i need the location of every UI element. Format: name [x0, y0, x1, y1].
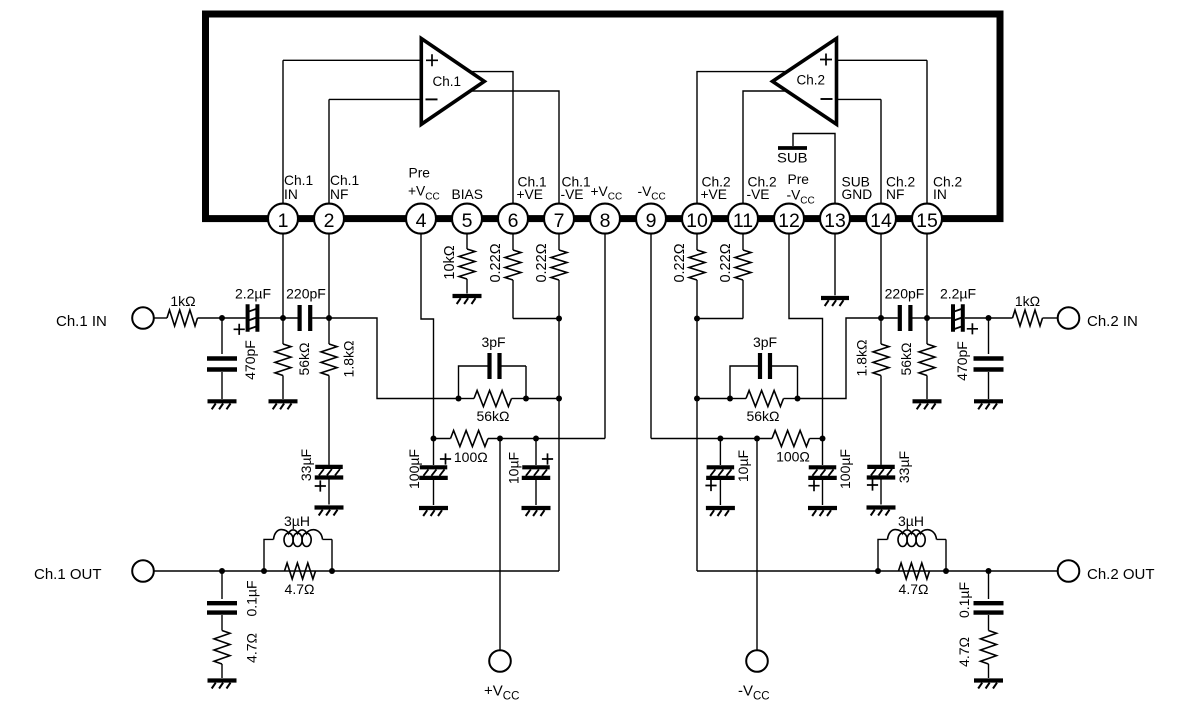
polarity + of 33uF: [315, 480, 326, 491]
pin 6 label Ch.1 +VE: [517, 175, 547, 202]
svg-text:0.22Ω: 0.22Ω: [672, 243, 688, 282]
wire C 2.2uF to node (Ch.2): [929, 317, 1013, 319]
svg-text:Pre: Pre: [409, 166, 431, 181]
wire pin7 column down to output line: [558, 319, 560, 572]
node 10uF (left): [533, 436, 539, 442]
svg-text:+VE: +VE: [701, 187, 727, 202]
node pin15 column / input (Ch.2): [924, 315, 930, 321]
substrate SUB symbol: [777, 148, 808, 166]
wire C 470pF to ground (Ch.2): [988, 372, 990, 399]
wire 3pF branch (Ch.1): [459, 366, 527, 399]
wire substrate to pin13: [793, 134, 835, 205]
svg-text:13: 13: [824, 210, 846, 232]
svg-text:NF: NF: [886, 187, 904, 202]
svg-text:Ch.1: Ch.1: [330, 173, 359, 188]
terminal +VCC: [489, 650, 511, 672]
pin 14: [866, 204, 896, 234]
svg-text:220pF: 220pF: [286, 286, 326, 302]
ground (Ch.1 470pF): [208, 399, 237, 403]
capacitor 10uF electrolytic (-VCC): [719, 439, 721, 466]
svg-text:2: 2: [324, 210, 335, 232]
node feedback left (Ch.2): [727, 396, 733, 402]
wire Ch.1 output line: [154, 570, 560, 572]
svg-text:0.1µF: 0.1µF: [243, 580, 259, 616]
resistor 1k ohm (Ch.1 input): [167, 310, 198, 326]
terminal Ch.2 OUT: [1058, 560, 1080, 582]
resistor 0.22 ohm (pin10 +VE): [696, 234, 698, 250]
wire feedback to pin7 column: [526, 398, 559, 400]
pin 1 label Ch.1 IN: [284, 173, 313, 202]
ground (Ch.2 470pF): [974, 399, 1003, 403]
pin 7 label Ch.1 -VE: [561, 175, 591, 202]
wire Ch.2 output to pin11 (-VE): [743, 91, 797, 205]
svg-text:Ch.1 IN: Ch.1 IN: [56, 313, 107, 330]
capacitor 2.2uF electrolytic (Ch.1 input): [248, 304, 258, 332]
node pin14 column / NF (Ch.2): [878, 315, 884, 321]
capacitor 0.1uF Zobel (Ch.1): [207, 603, 237, 612]
node 10uF (right): [717, 436, 723, 442]
wire node to C 0.1uF (Ch.2): [988, 571, 990, 599]
wire feedback to pin10 column: [697, 398, 730, 400]
polarity + of 2.2uF (Ch.2): [967, 323, 978, 334]
node pin7 column / feedback: [556, 396, 562, 402]
wire Ch.2 output to pin10 (+VE): [697, 72, 795, 205]
polarity + of 100uF (left): [440, 453, 451, 464]
svg-text:33µF: 33µF: [896, 451, 912, 483]
wire C 33uF to ground (Ch.2): [880, 480, 882, 505]
node Zobel (Ch.2): [986, 568, 992, 574]
resistor 56k ohm feedback (Ch.2): [784, 398, 798, 400]
pin 10 label Ch.2 +VE: [701, 175, 731, 202]
resistor 0.22 ohm (pin7 -VE): [558, 234, 560, 250]
resistor 56k ohm (Ch.1 input bias): [282, 318, 284, 344]
node pin2 column / NF: [326, 315, 332, 321]
svg-text:BIAS: BIAS: [452, 187, 483, 202]
node L/R filter right (Ch.1): [329, 568, 335, 574]
ground (Ch.1 33uF): [315, 505, 344, 509]
svg-text:1.8kΩ: 1.8kΩ: [853, 340, 869, 377]
wire pin15 to input node: [926, 234, 928, 318]
svg-text:IN: IN: [284, 187, 298, 202]
wire +VCC supply line: [499, 439, 501, 651]
resistor 4.7 ohm Zobel (Ch.2): [981, 631, 997, 665]
pin 2: [314, 204, 344, 234]
wire pin12 Pre -VCC jog: [789, 234, 823, 439]
svg-text:1kΩ: 1kΩ: [1015, 293, 1040, 309]
wire pin9 -VCC down to rail: [651, 234, 772, 439]
svg-text:11: 11: [733, 210, 753, 232]
wire C 0.1uF to R 4.7 (Ch.2): [988, 615, 990, 631]
node Zobel (Ch.1): [219, 568, 225, 574]
svg-text:3µH: 3µH: [284, 513, 310, 529]
op-amp Ch.2: [773, 39, 837, 125]
resistor 1.8k ohm (Ch.1 NF): [328, 318, 330, 344]
wire pin13 to ground: [834, 234, 836, 296]
ground (BIAS 10k): [453, 294, 482, 298]
node Ch.2 input / 470pF junction: [986, 315, 992, 321]
wire Ch.2 output line: [697, 570, 1058, 572]
svg-text:14: 14: [870, 210, 892, 232]
pin 1: [268, 204, 298, 234]
wire node to C 0.1uF (Ch.1): [221, 571, 223, 599]
wire Ch.1 IN terminal to R 1k: [154, 317, 168, 319]
svg-text:-VE: -VE: [561, 187, 584, 202]
capacitor 100uF electrolytic (-VCC): [822, 439, 824, 466]
pin 8: [590, 204, 620, 234]
wire R 1k to Ch.2 IN terminal: [1043, 317, 1059, 319]
svg-text:0.22Ω: 0.22Ω: [718, 243, 734, 282]
wire C 33uF to ground: [328, 480, 330, 505]
op-amp Ch.1: [421, 39, 484, 125]
svg-text:Ch.2 OUT: Ch.2 OUT: [1087, 566, 1155, 583]
inductor 3uH (Ch.1): [264, 530, 332, 571]
svg-text:10µF: 10µF: [735, 450, 751, 482]
wire C 0.1uF to R 4.7 (Ch.1): [221, 615, 223, 631]
node L/R filter left (Ch.2): [875, 568, 881, 574]
wire R 4.7 to ground (Ch.2): [988, 664, 990, 678]
pin 4 label Pre +VCC: [408, 166, 440, 203]
IC package outline (hybrid module body): [206, 14, 1001, 219]
resistor 4.7 ohm damping (Ch.2): [899, 563, 930, 579]
svg-text:470pF: 470pF: [242, 340, 258, 380]
svg-text:4.7Ω: 4.7Ω: [285, 581, 315, 597]
pin 4: [406, 204, 436, 234]
ground (Ch.1 Zobel): [208, 678, 237, 682]
wire pin10 column down to output line: [696, 319, 698, 572]
ground (100uF right): [808, 506, 837, 510]
wire pin11 to pin10 column: [697, 318, 743, 320]
svg-text:4.7Ω: 4.7Ω: [899, 581, 929, 597]
resistor 100 ohm (-VCC decoupling): [772, 431, 810, 447]
svg-text:10: 10: [686, 210, 708, 232]
node +VE/-VE join (Ch.2): [694, 316, 700, 322]
terminal Ch.1 IN: [132, 307, 154, 329]
capacitor 3pF (Ch.1 feedback): [490, 353, 500, 379]
wire R 1k to C 2.2uF: [198, 317, 246, 319]
pin 7: [544, 204, 574, 234]
node feedback left (Ch.1): [456, 396, 462, 402]
svg-text:9: 9: [646, 210, 657, 232]
svg-text:10kΩ: 10kΩ: [442, 245, 458, 279]
wire C 220pF to NF node (Ch.2): [881, 317, 898, 319]
polarity + of 100uF (right): [808, 480, 819, 491]
capacitor 33uF electrolytic (Ch.1 NF): [315, 465, 343, 469]
node pin10 column / feedback: [694, 396, 700, 402]
svg-text:0.22Ω: 0.22Ω: [534, 243, 550, 282]
svg-text:33µF: 33µF: [298, 449, 314, 481]
wire 3pF branch (Ch.2): [730, 366, 798, 399]
svg-text:-VE: -VE: [747, 187, 770, 202]
wire pin4 Pre +VCC jog: [421, 234, 434, 439]
resistor 100 ohm (+VCC decoupling): [451, 431, 489, 447]
svg-text:GND: GND: [842, 187, 873, 202]
svg-text:0.22Ω: 0.22Ω: [488, 243, 504, 282]
svg-text:5: 5: [462, 210, 473, 232]
wire node to C 470pF: [221, 318, 223, 354]
wire C 2.2uF to pin1 node: [260, 317, 299, 319]
capacitor 3pF (Ch.2 feedback): [760, 353, 770, 379]
resistor 0.22 ohm (pin6 +VE): [512, 234, 514, 250]
svg-text:1.8kΩ: 1.8kΩ: [340, 341, 356, 378]
svg-text:56kΩ: 56kΩ: [898, 342, 914, 375]
wire Ch.1 output to pin7 (-VE): [460, 91, 559, 205]
resistor 4.7 ohm damping (Ch.1): [285, 563, 316, 579]
svg-text:+VE: +VE: [517, 187, 543, 202]
svg-text:2.2µF: 2.2µF: [940, 286, 976, 302]
wire pin14 to NF node: [880, 234, 882, 318]
pin 14 label Ch.2 NF: [886, 175, 915, 202]
svg-text:8: 8: [600, 210, 611, 232]
capacitor 470pF (Ch.2 input): [974, 359, 1004, 370]
polarity + of 2.2uF: [234, 324, 245, 335]
ground (100uF left): [419, 506, 448, 510]
wire pin1 to Ch.1 + input: [283, 60, 423, 204]
resistor 56k ohm feedback (Ch.1): [459, 398, 475, 400]
pin 9: [636, 204, 666, 234]
wire -VCC supply line: [756, 439, 758, 651]
svg-text:56kΩ: 56kΩ: [746, 408, 779, 424]
polarity + of 10uF (left): [542, 453, 553, 464]
terminal Ch.2 IN: [1058, 307, 1080, 329]
svg-text:100Ω: 100Ω: [776, 449, 810, 465]
wire 100 ohm to 100uF node (right): [810, 438, 823, 440]
ground (10uF right): [706, 506, 735, 510]
pin 12: [774, 204, 804, 234]
node feedback right (Ch.2): [795, 396, 801, 402]
wire pin14 to Ch.2 - input: [835, 99, 881, 204]
svg-text:1: 1: [278, 210, 289, 232]
node Ch.1 input / 470pF junction: [219, 315, 225, 321]
resistor 0.22 ohm (pin11 -VE): [742, 234, 744, 250]
pin 13: [820, 204, 850, 234]
wire NF node to feedback network (Ch.2): [798, 318, 882, 399]
node 100uF / pin4 column: [431, 436, 437, 442]
resistor 1.8k ohm (Ch.2 NF): [880, 318, 882, 344]
node 100uF / pin12 column (right): [820, 436, 826, 442]
pin 2 label Ch.1 NF: [330, 173, 359, 202]
pin 11 label Ch.2 -VE: [747, 175, 777, 202]
wire Ch.1 output to pin6 (+VE): [462, 72, 513, 205]
capacitor 100uF electrolytic (+VCC): [433, 439, 435, 466]
svg-text:7: 7: [554, 210, 565, 232]
ground (Ch.1 56k): [269, 399, 298, 403]
wire pin15 to Ch.2 + input: [835, 60, 927, 204]
svg-text:IN: IN: [933, 187, 947, 202]
svg-text:Ch.1 OUT: Ch.1 OUT: [34, 566, 102, 583]
svg-text:4: 4: [416, 210, 427, 232]
terminal Ch.1 OUT: [132, 560, 154, 582]
pin 6: [498, 204, 528, 234]
wire node to C 470pF (Ch.2): [988, 318, 990, 354]
pin 12 label Pre -VCC: [787, 172, 815, 206]
svg-text:3pF: 3pF: [753, 334, 777, 350]
capacitor 470pF (Ch.1 input): [207, 359, 237, 370]
svg-text:0.1µF: 0.1µF: [956, 582, 972, 618]
ground (Ch.2 33uF): [867, 505, 896, 509]
ground (SUB GND pin13): [821, 296, 849, 300]
polarity + of 10uF (right): [705, 480, 716, 491]
pin 15: [912, 204, 942, 234]
ground (Ch.2 56k): [913, 399, 942, 403]
pin 10: [682, 204, 712, 234]
pin 11: [728, 204, 758, 234]
capacitor 0.1uF Zobel (Ch.2): [974, 603, 1004, 612]
wire pin6 to pin7 column: [513, 318, 559, 320]
node pin1 column / input: [280, 315, 286, 321]
svg-text:Ch.2 IN: Ch.2 IN: [1087, 313, 1138, 330]
svg-text:4.7Ω: 4.7Ω: [956, 637, 972, 667]
pin 5: [452, 204, 482, 234]
svg-text:470pF: 470pF: [954, 341, 970, 381]
node +VCC line: [497, 436, 503, 442]
polarity + of 33uF (Ch.2): [867, 479, 878, 490]
svg-text:NF: NF: [330, 187, 348, 202]
wire NF node to feedback network: [329, 318, 459, 399]
svg-text:220pF: 220pF: [885, 286, 925, 302]
wire R 4.7 to ground (Ch.1): [221, 664, 223, 678]
svg-text:100µF: 100µF: [837, 449, 853, 489]
svg-text:SUB: SUB: [777, 151, 808, 166]
svg-text:4.7Ω: 4.7Ω: [243, 633, 259, 663]
wire C 470pF to ground: [221, 372, 223, 399]
svg-text:56kΩ: 56kΩ: [296, 342, 312, 375]
capacitor 33uF electrolytic (Ch.2 NF): [867, 465, 895, 469]
svg-text:15: 15: [916, 210, 938, 232]
node L/R filter left (Ch.1): [261, 568, 267, 574]
capacitor 220pF (Ch.1): [300, 305, 311, 331]
inductor 3uH (Ch.2): [878, 530, 946, 571]
wire rail to 100uF node: [434, 438, 451, 440]
node L/R filter right (Ch.2): [943, 568, 949, 574]
wire pin2 to NF node: [328, 234, 330, 318]
node -VCC line: [754, 436, 760, 442]
svg-text:10µF: 10µF: [505, 452, 521, 484]
ground (10uF left): [522, 506, 551, 510]
svg-text:3pF: 3pF: [481, 334, 505, 350]
node feedback right (Ch.1): [523, 396, 529, 402]
svg-text:12: 12: [778, 210, 800, 232]
svg-text:56kΩ: 56kΩ: [476, 408, 509, 424]
svg-text:Ch.1: Ch.1: [433, 74, 462, 89]
svg-text:Ch.1: Ch.1: [284, 173, 313, 188]
svg-text:100Ω: 100Ω: [454, 449, 488, 465]
resistor 4.7 ohm Zobel (Ch.1): [214, 631, 230, 665]
svg-text:100µF: 100µF: [406, 449, 422, 489]
capacitor 2.2uF electrolytic (Ch.2 input): [953, 304, 963, 332]
svg-text:Pre: Pre: [788, 172, 810, 187]
svg-text:6: 6: [508, 210, 519, 232]
svg-text:2.2µF: 2.2µF: [235, 286, 271, 302]
capacitor 10uF electrolytic (+VCC): [535, 439, 537, 466]
wire C 220pF to pin2 node: [312, 317, 329, 319]
wire pin8 +VCC down to rail: [488, 234, 605, 439]
capacitor 220pF (Ch.2): [900, 305, 911, 331]
pin 13 label SUB GND: [842, 175, 873, 202]
resistor 56k ohm (Ch.2 input bias): [926, 318, 928, 344]
svg-text:1kΩ: 1kΩ: [170, 293, 195, 309]
terminal -VCC: [746, 650, 768, 672]
pin 15 label Ch.2 IN: [933, 175, 962, 202]
node +VE/-VE join (Ch.1): [556, 316, 562, 322]
ground (Ch.2 Zobel): [974, 678, 1003, 682]
wire C 220pF to pin15 node: [912, 317, 927, 319]
resistor 1k ohm (Ch.2 input): [1013, 310, 1043, 326]
resistor 10k ohm (BIAS): [466, 234, 468, 249]
wire pin1 to input node: [282, 234, 284, 318]
svg-text:3µH: 3µH: [898, 513, 924, 529]
svg-text:Ch.2: Ch.2: [797, 73, 826, 88]
wire pin2 to Ch.1 - input: [329, 99, 423, 204]
